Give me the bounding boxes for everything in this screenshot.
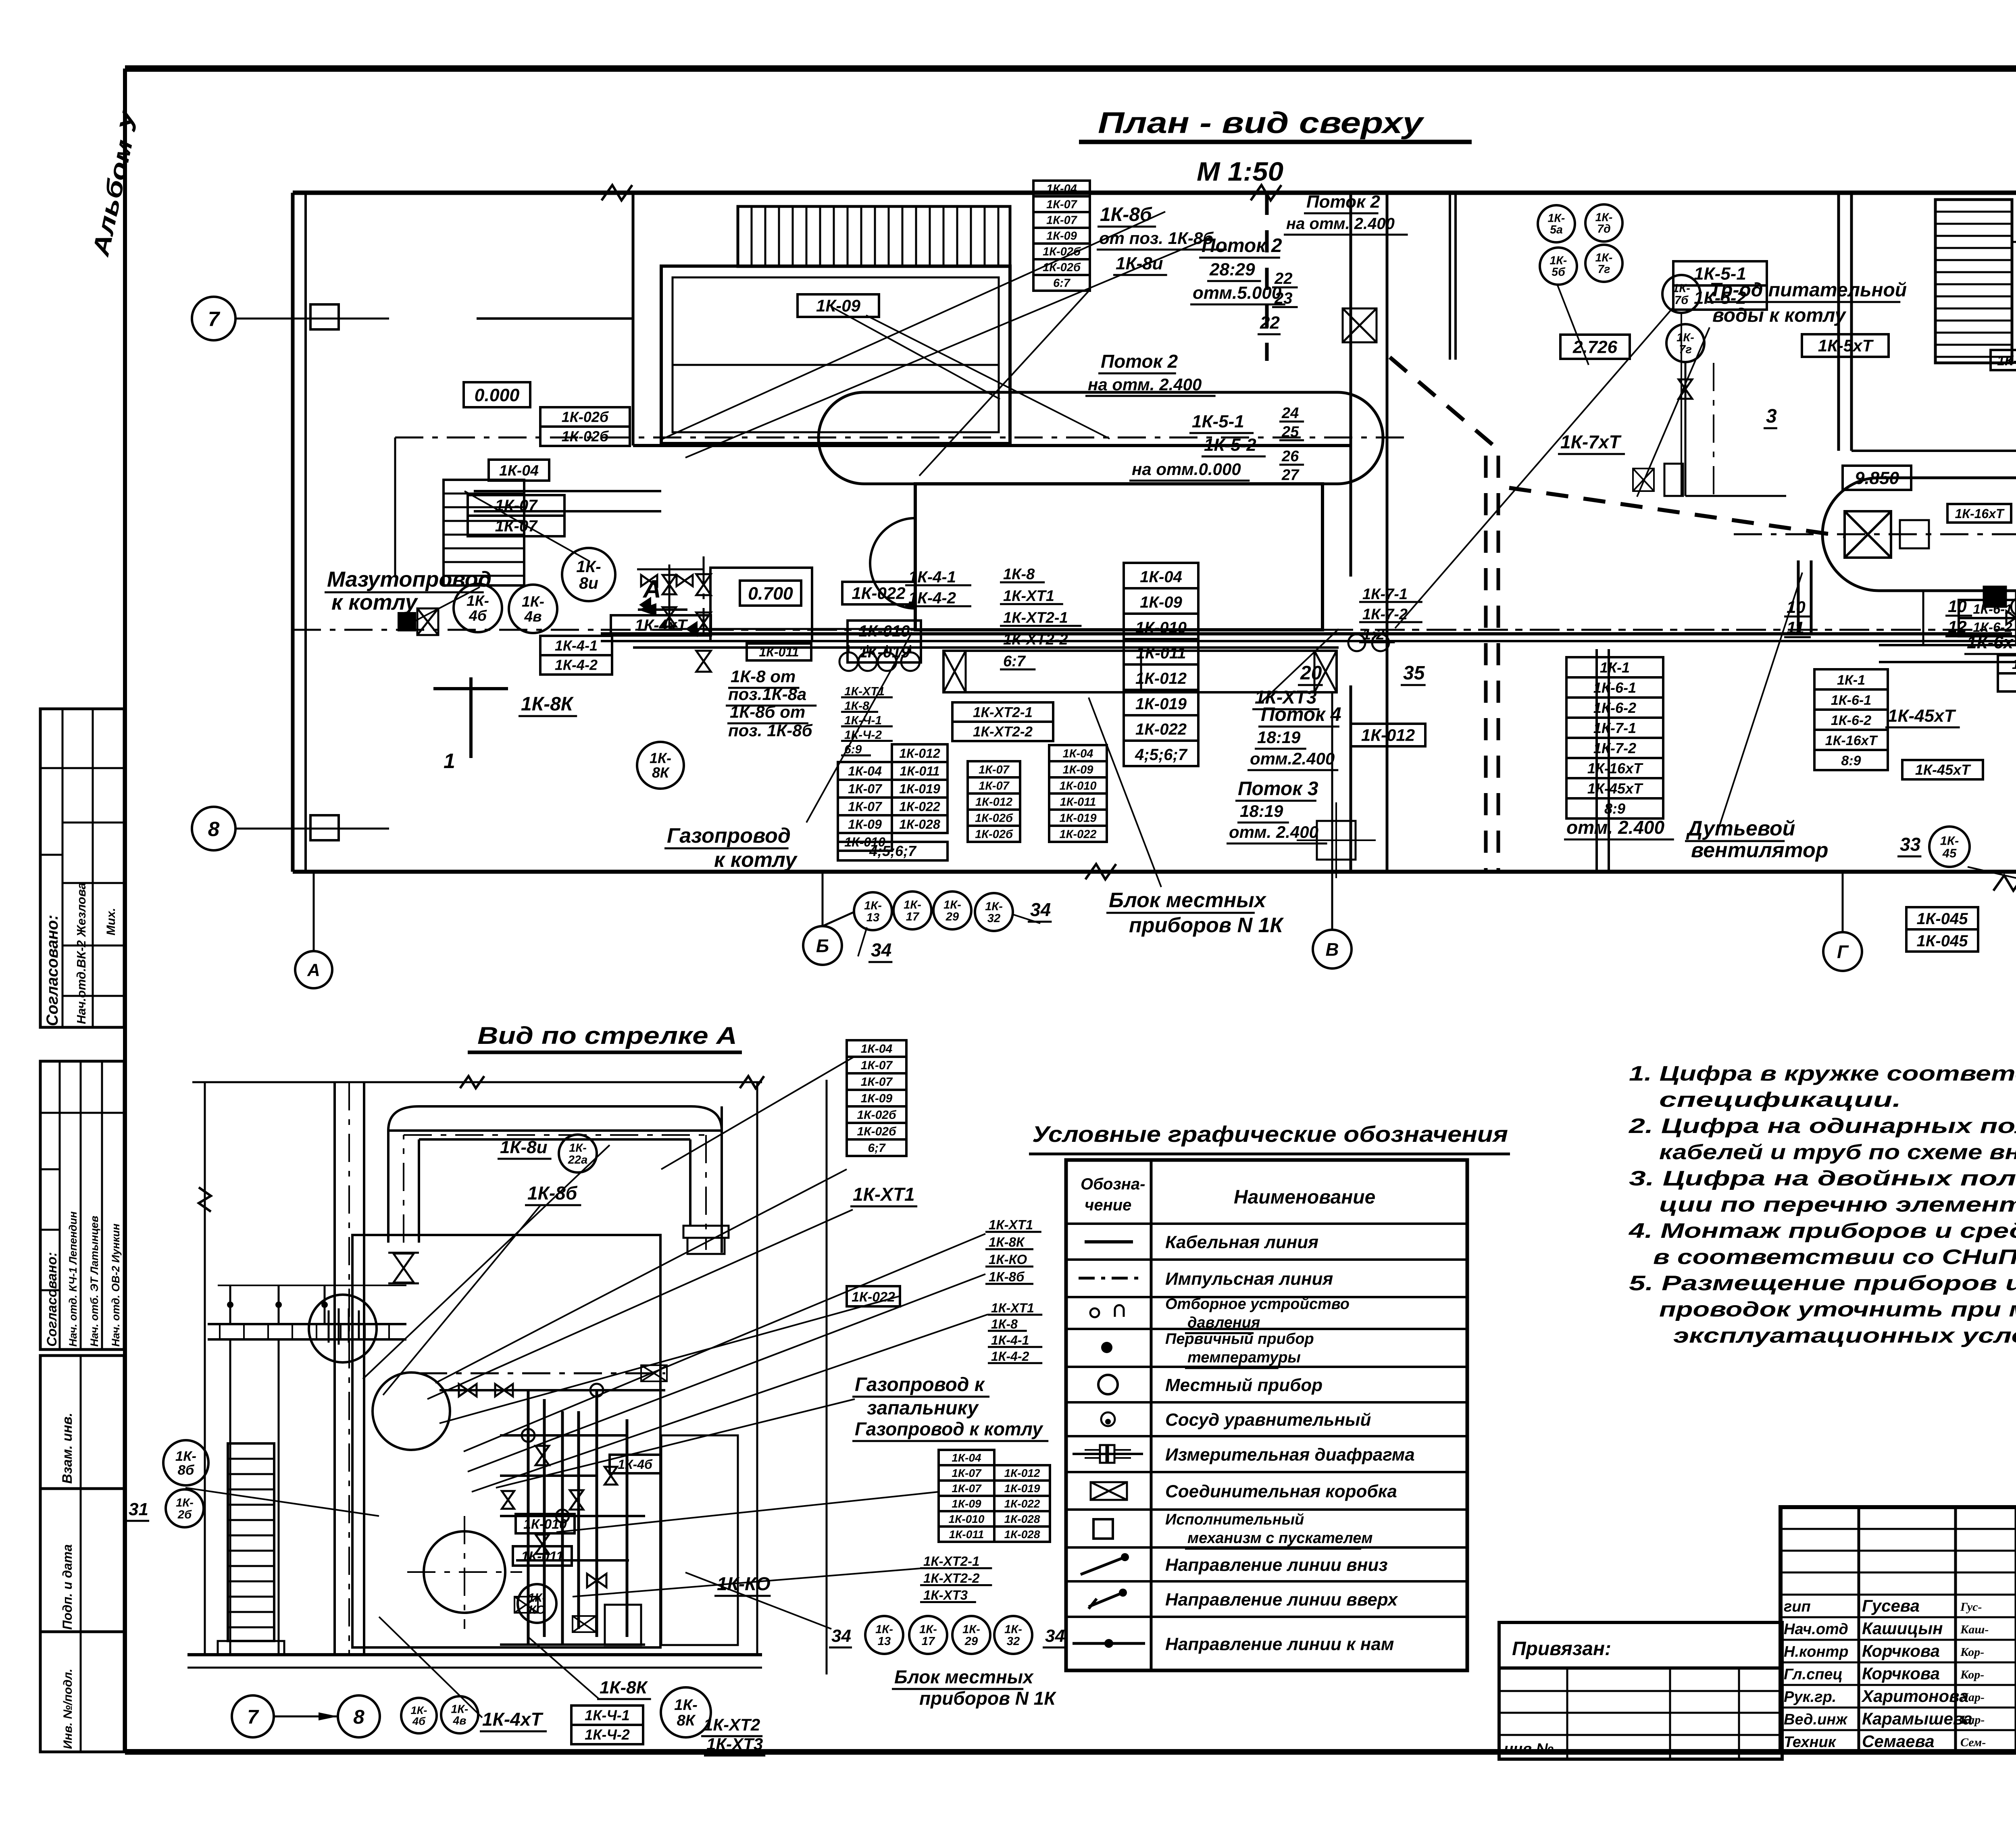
svg-text:1К-5-2: 1К-5-2 xyxy=(1204,435,1256,455)
corridor instrument circles small xyxy=(1348,634,1365,651)
plan left wall xyxy=(291,193,295,872)
bubble 1K-7b xyxy=(1662,275,1700,313)
svg-text:4в: 4в xyxy=(452,1714,466,1727)
break mark on top wall xyxy=(602,185,632,200)
sv tall duct xyxy=(333,1082,336,1655)
svg-text:1К-: 1К- xyxy=(451,1703,469,1716)
svg-text:1К-019: 1К-019 xyxy=(1060,812,1097,825)
svg-text:1К-: 1К- xyxy=(176,1497,194,1510)
svg-text:2. Цифра на одинарных полоч: 2. Цифра на одинарных полочках соответст… xyxy=(1629,1114,2016,1138)
leader line 5 xyxy=(1395,306,1674,628)
platform stairs hatch left xyxy=(444,480,524,585)
svg-text:1К-1: 1К-1 xyxy=(1837,673,1865,688)
svg-text:1К-ХТ1: 1К-ХТ1 xyxy=(989,1217,1033,1232)
label 1K-16xT xyxy=(1947,504,2011,523)
svg-text:8: 8 xyxy=(208,817,220,840)
sv labels 1K-4-1 pair xyxy=(571,1706,643,1725)
left boiler body xyxy=(915,484,1322,630)
svg-text:8:9: 8:9 xyxy=(1604,800,1625,817)
svg-text:1К-45хТ: 1К-45хТ xyxy=(1915,761,1971,778)
svg-text:1К-ХТ1: 1К-ХТ1 xyxy=(991,1301,1034,1315)
svg-text:Кор-: Кор- xyxy=(1960,1668,1984,1681)
svg-text:Карамышева: Карамышева xyxy=(1862,1709,1972,1728)
svg-text:1К-45хТ: 1К-45хТ xyxy=(1888,706,1956,726)
svg-text:1К-07: 1К-07 xyxy=(1046,198,1078,211)
bubble 1K-8K xyxy=(637,742,684,789)
svg-text:1К-8: 1К-8 xyxy=(1003,566,1035,583)
svg-text:1К-019: 1К-019 xyxy=(899,781,940,796)
svg-text:вентилятор: вентилятор xyxy=(1691,839,1829,862)
svg-text:1К-: 1К- xyxy=(1548,212,1565,225)
svg-text:1К-: 1К- xyxy=(985,900,1003,913)
svg-text:1К-07: 1К-07 xyxy=(848,781,883,796)
svg-text:Привязан:: Привязан: xyxy=(1512,1638,1611,1660)
title block sig row line xyxy=(1781,1684,2016,1686)
svg-text:1К-КО: 1К-КО xyxy=(989,1252,1027,1267)
svg-text:7г: 7г xyxy=(1597,263,1610,276)
svg-text:1К-04: 1К-04 xyxy=(1046,183,1077,196)
bubble 1K-5b xyxy=(1540,248,1577,285)
svg-text:Газопровод к: Газопровод к xyxy=(855,1374,985,1395)
leader gazoprovod xyxy=(806,632,912,823)
sv piping cluster xyxy=(527,1390,530,1645)
svg-text:Согласовано:: Согласовано: xyxy=(44,915,61,1026)
svg-text:1К-: 1К- xyxy=(943,899,961,912)
svg-text:8: 8 xyxy=(353,1706,364,1728)
title block sig row line xyxy=(1781,1550,2016,1552)
svg-text:1К-09: 1К-09 xyxy=(1140,594,1182,611)
svg-text:4;5;6;7: 4;5;6;7 xyxy=(869,843,917,859)
leader line 18 xyxy=(1557,284,1589,365)
labels 1K-XT2 pair xyxy=(952,702,1053,722)
svg-text:1К-02б: 1К-02б xyxy=(1043,246,1081,258)
title block sig row line xyxy=(1781,1662,2016,1664)
svg-text:КО: КО xyxy=(529,1603,545,1616)
room top-left inner shelf xyxy=(673,364,999,366)
svg-text:к котлу: к котлу xyxy=(331,590,419,614)
duct below wall xyxy=(1449,193,1451,360)
svg-text:1К-7-1: 1К-7-1 xyxy=(1362,586,1408,603)
svg-text:1К-02б: 1К-02б xyxy=(857,1108,896,1122)
leader line 2 xyxy=(685,237,1211,458)
svg-text:Условные графические обознач: Условные графические обозначения xyxy=(1032,1121,1508,1147)
svg-text:31: 31 xyxy=(129,1499,148,1519)
svg-text:1К-ХТ3: 1К-ХТ3 xyxy=(923,1588,968,1603)
plan top wall xyxy=(293,191,2016,195)
svg-text:1К-022: 1К-022 xyxy=(1135,721,1187,738)
sv gas manifold xyxy=(439,1389,665,1391)
svg-text:1К-019: 1К-019 xyxy=(1135,695,1187,713)
bubble 1K-7v xyxy=(1666,324,1704,362)
chimney foundation square xyxy=(1317,821,1356,860)
svg-text:1К-045: 1К-045 xyxy=(1917,910,1968,928)
label 1K-4xT xyxy=(611,615,711,635)
leader line 3 xyxy=(866,315,1110,439)
legend sym pressure tap xyxy=(1090,1308,1099,1317)
svg-text:Сосуд уравнительный: Сосуд уравнительный xyxy=(1165,1410,1371,1430)
stack 1K-1 right small xyxy=(1814,669,1888,689)
legend sym local instrument xyxy=(1098,1375,1118,1394)
svg-text:33: 33 xyxy=(1900,834,1921,855)
grid bubble 8 xyxy=(192,807,235,850)
sv economizer coil xyxy=(329,1308,359,1345)
svg-text:8б: 8б xyxy=(178,1463,195,1478)
svg-text:проводок уточнить при монта: проводок уточнить при монтаже, исходя из… xyxy=(1659,1298,2016,1321)
svg-text:1К-09: 1К-09 xyxy=(1063,763,1093,776)
sv floor line xyxy=(187,1653,762,1656)
svg-text:1К-5хТ: 1К-5хТ xyxy=(1818,336,1874,355)
svg-text:1К-07: 1К-07 xyxy=(861,1059,893,1072)
svg-text:1К-: 1К- xyxy=(1672,282,1690,295)
svg-text:1К-: 1К- xyxy=(522,593,544,610)
svg-text:1К-4хТ: 1К-4хТ xyxy=(482,1709,544,1730)
legend row divider xyxy=(1066,1401,1467,1404)
svg-text:1К-Ч-1: 1К-Ч-1 xyxy=(844,714,882,727)
svg-text:чение: чение xyxy=(1085,1196,1131,1214)
junction xbox left xyxy=(417,608,438,635)
right boiler drum centerline xyxy=(1734,533,2016,535)
title block sig row line xyxy=(1781,1528,2016,1530)
corridor impulse line xyxy=(601,629,2012,631)
svg-text:1К-09: 1К-09 xyxy=(861,1092,893,1105)
svg-text:32: 32 xyxy=(987,912,1000,925)
svg-text:Дутьевой: Дутьевой xyxy=(1686,817,1795,840)
svg-text:0.700: 0.700 xyxy=(748,584,793,604)
svg-text:24: 24 xyxy=(1281,405,1299,422)
svg-text:1К-7хТ: 1К-7хТ xyxy=(1560,431,1622,452)
svg-text:45: 45 xyxy=(1942,846,1957,860)
sv boiler body outline xyxy=(352,1235,660,1647)
svg-text:1К-04: 1К-04 xyxy=(1063,747,1093,760)
svg-text:3. Цифра на двойных полочка: 3. Цифра на двойных полочках соответству… xyxy=(1629,1167,2016,1190)
svg-text:6:7: 6:7 xyxy=(1003,653,1026,670)
svg-text:4б: 4б xyxy=(412,1715,426,1727)
leader line 10 xyxy=(1261,629,1339,702)
svg-text:1К-07: 1К-07 xyxy=(1046,214,1078,227)
sv bubble 1K-8g xyxy=(163,1440,208,1485)
svg-text:1К-ХТ2: 1К-ХТ2 xyxy=(704,1715,760,1734)
svg-text:Каш-: Каш- xyxy=(1960,1623,1989,1636)
blower fan box xyxy=(1845,511,1891,558)
svg-text:Первичный прибор: Первичный прибор xyxy=(1165,1331,1314,1347)
svg-text:1К-: 1К- xyxy=(1595,211,1613,224)
grid line 7 marker xyxy=(235,318,389,320)
svg-text:3: 3 xyxy=(1766,406,1777,427)
svg-text:22: 22 xyxy=(1274,270,1293,287)
svg-text:Поток 2: Поток 2 xyxy=(1202,235,1282,256)
svg-text:инв №: инв № xyxy=(1504,1741,1554,1758)
svg-text:Блок местных: Блок местных xyxy=(1109,889,1267,912)
svg-text:1К-: 1К- xyxy=(962,1623,980,1636)
feedwater riser valves xyxy=(703,556,705,634)
svg-text:34: 34 xyxy=(871,939,891,960)
svg-text:Кар-: Кар- xyxy=(1960,1713,1985,1726)
sv bottom bubbles 7 8 xyxy=(232,1695,274,1737)
svg-text:давления: давления xyxy=(1187,1314,1260,1331)
svg-text:1К-04: 1К-04 xyxy=(848,764,882,778)
svg-text:1К-1: 1К-1 xyxy=(2012,657,2016,672)
legend sym cable line xyxy=(1085,1240,1133,1243)
svg-text:Поток 2: Поток 2 xyxy=(1306,192,1380,212)
text 34 left xyxy=(858,927,867,956)
labels 1K-045 pair xyxy=(1906,907,1978,929)
svg-text:1К-6-1: 1К-6-1 xyxy=(1593,679,1636,696)
svg-text:на отм. 2.400: на отм. 2.400 xyxy=(1286,215,1395,233)
svg-text:1К-7-2: 1К-7-2 xyxy=(1362,606,1408,623)
break mark on bottom wall xyxy=(1993,875,2016,891)
sv impulse line horizontal xyxy=(419,1372,665,1374)
svg-text:ции по перечню элементов.: ции по перечню элементов. xyxy=(1659,1193,2016,1216)
svg-text:1К-45хТ: 1К-45хТ xyxy=(1587,780,1643,797)
svg-text:4. Монтаж приборов и средст: 4. Монтаж приборов и средств автоматизац… xyxy=(1629,1219,2016,1243)
svg-text:Гус-: Гус- xyxy=(1960,1600,1982,1614)
svg-text:Согласовано:: Согласовано: xyxy=(44,1252,60,1347)
svg-text:1К-022: 1К-022 xyxy=(899,799,940,814)
svg-text:Мазутопровод: Мазутопровод xyxy=(327,567,492,591)
title block sig row line xyxy=(1781,1594,2016,1596)
sv left boundary line xyxy=(204,1082,206,1655)
svg-text:1К-8К: 1К-8К xyxy=(989,1235,1025,1249)
svg-text:1К-ХТ2-2: 1К-ХТ2-2 xyxy=(973,724,1033,739)
legend row divider xyxy=(1066,1366,1467,1368)
box grid lower-left colA xyxy=(838,762,892,780)
svg-text:План - вид сверху: План - вид сверху xyxy=(1098,106,1425,140)
svg-text:на отм. 2.400: на отм. 2.400 xyxy=(1088,375,1202,394)
bubble 1K-5a xyxy=(1538,205,1575,242)
svg-text:1К-ХТ1: 1К-ХТ1 xyxy=(1003,588,1054,605)
left boiler front arc xyxy=(870,518,915,608)
svg-text:1К-ХТ1: 1К-ХТ1 xyxy=(853,1184,915,1205)
svg-text:13: 13 xyxy=(866,911,879,924)
svg-text:1К-1: 1К-1 xyxy=(1600,659,1630,676)
svg-text:Измерительная диафрагма: Измерительная диафрагма xyxy=(1165,1445,1415,1465)
sv label 1K-4b small xyxy=(610,1455,660,1473)
svg-text:Направление линии к нам: Направление линии к нам xyxy=(1165,1635,1394,1654)
svg-text:34: 34 xyxy=(831,1626,851,1646)
svg-text:от поз. 1К-8б: от поз. 1К-8б xyxy=(1099,229,1214,248)
label 2.726 xyxy=(1560,335,1630,359)
svg-text:Обозна-: Обозна- xyxy=(1081,1175,1145,1193)
svg-text:1: 1 xyxy=(444,750,455,773)
svg-text:22а: 22а xyxy=(568,1154,588,1166)
box column mid 1K-04 group xyxy=(1124,563,1198,588)
svg-text:1К-: 1К- xyxy=(467,592,489,609)
svg-text:1К-02б: 1К-02б xyxy=(562,408,609,425)
svg-text:1К-6-1: 1К-6-1 xyxy=(1831,693,1871,708)
grid bubble B xyxy=(803,926,842,965)
svg-text:1К-8и: 1К-8и xyxy=(1116,254,1163,273)
svg-text:1К-: 1К- xyxy=(576,557,601,576)
left boiler drum xyxy=(818,392,1383,484)
svg-text:на отм.0.000: на отм.0.000 xyxy=(1132,460,1241,479)
stairs top-left hatched xyxy=(738,206,1010,267)
svg-text:Харитонова: Харитонова xyxy=(1861,1687,1968,1706)
svg-text:1К-011: 1К-011 xyxy=(1060,796,1096,808)
svg-text:23: 23 xyxy=(1274,289,1293,307)
title block sig row line xyxy=(1781,1707,2016,1709)
svg-text:Газопровод: Газопровод xyxy=(667,824,791,848)
svg-text:1К-8К: 1К-8К xyxy=(600,1678,648,1697)
sv lower furnace circle xyxy=(424,1531,505,1613)
sv label 1K-022 xyxy=(847,1286,900,1306)
svg-text:1К-09: 1К-09 xyxy=(816,296,861,315)
svg-text:1К-04: 1К-04 xyxy=(952,1451,981,1464)
svg-text:20: 20 xyxy=(1300,662,1322,684)
svg-text:1К-010: 1К-010 xyxy=(859,623,910,640)
svg-text:1К-07: 1К-07 xyxy=(495,497,538,514)
svg-text:22: 22 xyxy=(1260,313,1280,333)
label 0.700 xyxy=(740,581,801,606)
labels 1K-02b pair xyxy=(540,407,630,427)
right steam pipe double xyxy=(1879,644,2016,646)
bubble 1K-7g xyxy=(1585,245,1622,282)
svg-text:Кабельная линия: Кабельная линия xyxy=(1165,1233,1318,1252)
legend sym line to us xyxy=(1073,1642,1145,1645)
svg-text:1К-02б: 1К-02б xyxy=(975,828,1013,841)
room lower wall line xyxy=(477,317,633,320)
legend row divider xyxy=(1066,1508,1467,1511)
sv bubble 1K-22a xyxy=(559,1135,597,1172)
right boiler outlet piping xyxy=(2015,591,2016,645)
svg-text:В: В xyxy=(1326,939,1339,960)
stamp group soglasovano 1 xyxy=(40,709,124,1027)
svg-text:1К-02б: 1К-02б xyxy=(562,428,609,444)
svg-text:27: 27 xyxy=(1281,467,1300,484)
svg-text:1К-8К: 1К-8К xyxy=(521,693,574,715)
title block signature columns xyxy=(1779,1507,1782,1752)
svg-text:в соответствии со СНиП Ⅲ-34-: в соответствии со СНиП Ⅲ-34-74. xyxy=(1653,1245,2016,1269)
sv bubble 1K-KO xyxy=(518,1584,556,1623)
potok2 dashed riser xyxy=(1265,193,1269,361)
svg-text:М 1:50: М 1:50 xyxy=(1197,156,1283,186)
svg-text:1К-028: 1К-028 xyxy=(1004,1513,1040,1525)
svg-text:1К-010: 1К-010 xyxy=(523,1516,567,1532)
leader line 11 xyxy=(1089,698,1161,887)
svg-text:отм.5.000: отм.5.000 xyxy=(1193,283,1282,303)
svg-text:1К-4-1: 1К-4-1 xyxy=(555,637,598,654)
svg-text:1К-5-1: 1К-5-1 xyxy=(1192,412,1244,431)
svg-text:1К-012: 1К-012 xyxy=(1361,726,1415,745)
svg-text:35: 35 xyxy=(1403,662,1425,684)
svg-text:1К-: 1К- xyxy=(528,1591,546,1605)
labels 1K-07 pair xyxy=(468,495,564,516)
box grid lower-left colB xyxy=(892,744,948,762)
svg-text:запальнику: запальнику xyxy=(867,1397,979,1419)
svg-text:1К-: 1К- xyxy=(650,750,671,766)
section mark lower left xyxy=(433,687,508,690)
svg-text:34: 34 xyxy=(1030,899,1051,920)
svg-text:1К-ХТ3: 1К-ХТ3 xyxy=(1255,687,1317,708)
legend sym line down xyxy=(1081,1557,1125,1574)
svg-text:Подп. и дата: Подп. и дата xyxy=(60,1544,75,1630)
box column 1K-07 group xyxy=(968,761,1020,777)
svg-text:1К-010: 1К-010 xyxy=(1060,779,1097,792)
left boiler burner piping xyxy=(669,564,671,629)
svg-text:воды к котлу: воды к котлу xyxy=(1712,305,1847,326)
sv valve on left leg xyxy=(394,1254,414,1283)
svg-text:Н.контр: Н.контр xyxy=(1784,1643,1848,1660)
svg-text:1К-: 1К- xyxy=(1550,254,1567,267)
wall above left boiler xyxy=(633,444,1351,447)
svg-text:4в: 4в xyxy=(524,608,541,625)
sv burner circle small xyxy=(373,1372,450,1450)
svg-text:1К-4-2: 1К-4-2 xyxy=(908,589,956,607)
svg-text:1К-045: 1К-045 xyxy=(1997,353,2016,369)
svg-text:Взам. инв.: Взам. инв. xyxy=(60,1413,75,1484)
svg-text:1К-4-2: 1К-4-2 xyxy=(555,656,598,673)
legend row divider xyxy=(1066,1296,1467,1298)
svg-text:4;5;6;7: 4;5;6;7 xyxy=(1135,746,1188,764)
svg-text:отм. 2.400: отм. 2.400 xyxy=(1229,823,1318,841)
svg-text:Нач. отд. КЧ-1 Лепендин: Нач. отд. КЧ-1 Лепендин xyxy=(67,1211,79,1347)
svg-text:1К-: 1К- xyxy=(1677,331,1694,344)
box column D xyxy=(1049,745,1107,761)
svg-text:26: 26 xyxy=(1281,448,1299,465)
svg-text:1К-ХТ3: 1К-ХТ3 xyxy=(706,1735,763,1753)
bubble 1K-8i xyxy=(562,548,615,601)
grid bubble V xyxy=(1313,930,1352,968)
svg-text:29: 29 xyxy=(946,910,959,923)
svg-text:0.000: 0.000 xyxy=(475,385,520,405)
tall stack 1K-04..6:7 xyxy=(1033,181,1090,196)
svg-text:1К-8б: 1К-8б xyxy=(527,1183,578,1204)
fuel pipes into boiler xyxy=(474,490,661,492)
sv platform posts xyxy=(229,1339,231,1655)
legend sym impulse line xyxy=(1079,1277,1139,1280)
svg-text:1К-011: 1К-011 xyxy=(1136,644,1186,662)
svg-text:1К-011: 1К-011 xyxy=(900,764,939,778)
svg-text:29: 29 xyxy=(964,1635,978,1648)
break mark on bottom wall xyxy=(1085,864,1116,879)
leader line 1 xyxy=(661,212,1165,439)
title block sig row line xyxy=(1781,1616,2016,1618)
svg-text:12: 12 xyxy=(1948,617,1967,636)
svg-text:1К-012: 1К-012 xyxy=(899,746,940,760)
privyazan box xyxy=(1499,1622,1782,1668)
svg-text:Корчкова: Корчкова xyxy=(1862,1664,1940,1683)
svg-text:1К-8: 1К-8 xyxy=(991,1317,1018,1331)
svg-text:7д: 7д xyxy=(1597,223,1611,235)
svg-text:1К-8и: 1К-8и xyxy=(500,1137,548,1157)
sv big pipe right leg xyxy=(721,1106,723,1253)
sv pipe centerline xyxy=(403,1135,404,1243)
svg-text:11: 11 xyxy=(1787,618,1804,637)
legend sym junction box xyxy=(1091,1482,1127,1500)
partition wall center xyxy=(1350,193,1352,577)
svg-text:1К-012: 1К-012 xyxy=(975,796,1012,808)
svg-text:1К-4хТ: 1К-4хТ xyxy=(635,616,688,634)
bubble 1K-4b xyxy=(454,584,502,632)
svg-text:6:9: 6:9 xyxy=(844,743,862,756)
svg-text:Исполнительный: Исполнительный xyxy=(1165,1511,1304,1528)
svg-text:8К: 8К xyxy=(677,1712,696,1729)
svg-text:17: 17 xyxy=(906,910,920,923)
svg-text:к котлу: к котлу xyxy=(714,848,798,872)
leader line 12 xyxy=(1968,867,2016,935)
svg-text:1К-07: 1К-07 xyxy=(495,517,538,535)
svg-text:5. Размещение приборов и по: 5. Размещение приборов и потоков электри… xyxy=(1629,1272,2016,1295)
svg-text:28:29: 28:29 xyxy=(1209,260,1255,279)
stamp podp i data xyxy=(40,1489,124,1632)
svg-text:1К-Ч-2: 1К-Ч-2 xyxy=(585,1726,630,1743)
sv box grid colB xyxy=(994,1465,1050,1481)
svg-text:Техник: Техник xyxy=(1784,1734,1837,1751)
svg-text:1К-: 1К- xyxy=(175,1449,196,1464)
svg-text:Рук.гр.: Рук.гр. xyxy=(1784,1689,1836,1706)
svg-text:1К-04: 1К-04 xyxy=(499,462,539,479)
svg-text:1К-07: 1К-07 xyxy=(861,1075,893,1089)
svg-text:1К-07: 1К-07 xyxy=(952,1467,982,1479)
